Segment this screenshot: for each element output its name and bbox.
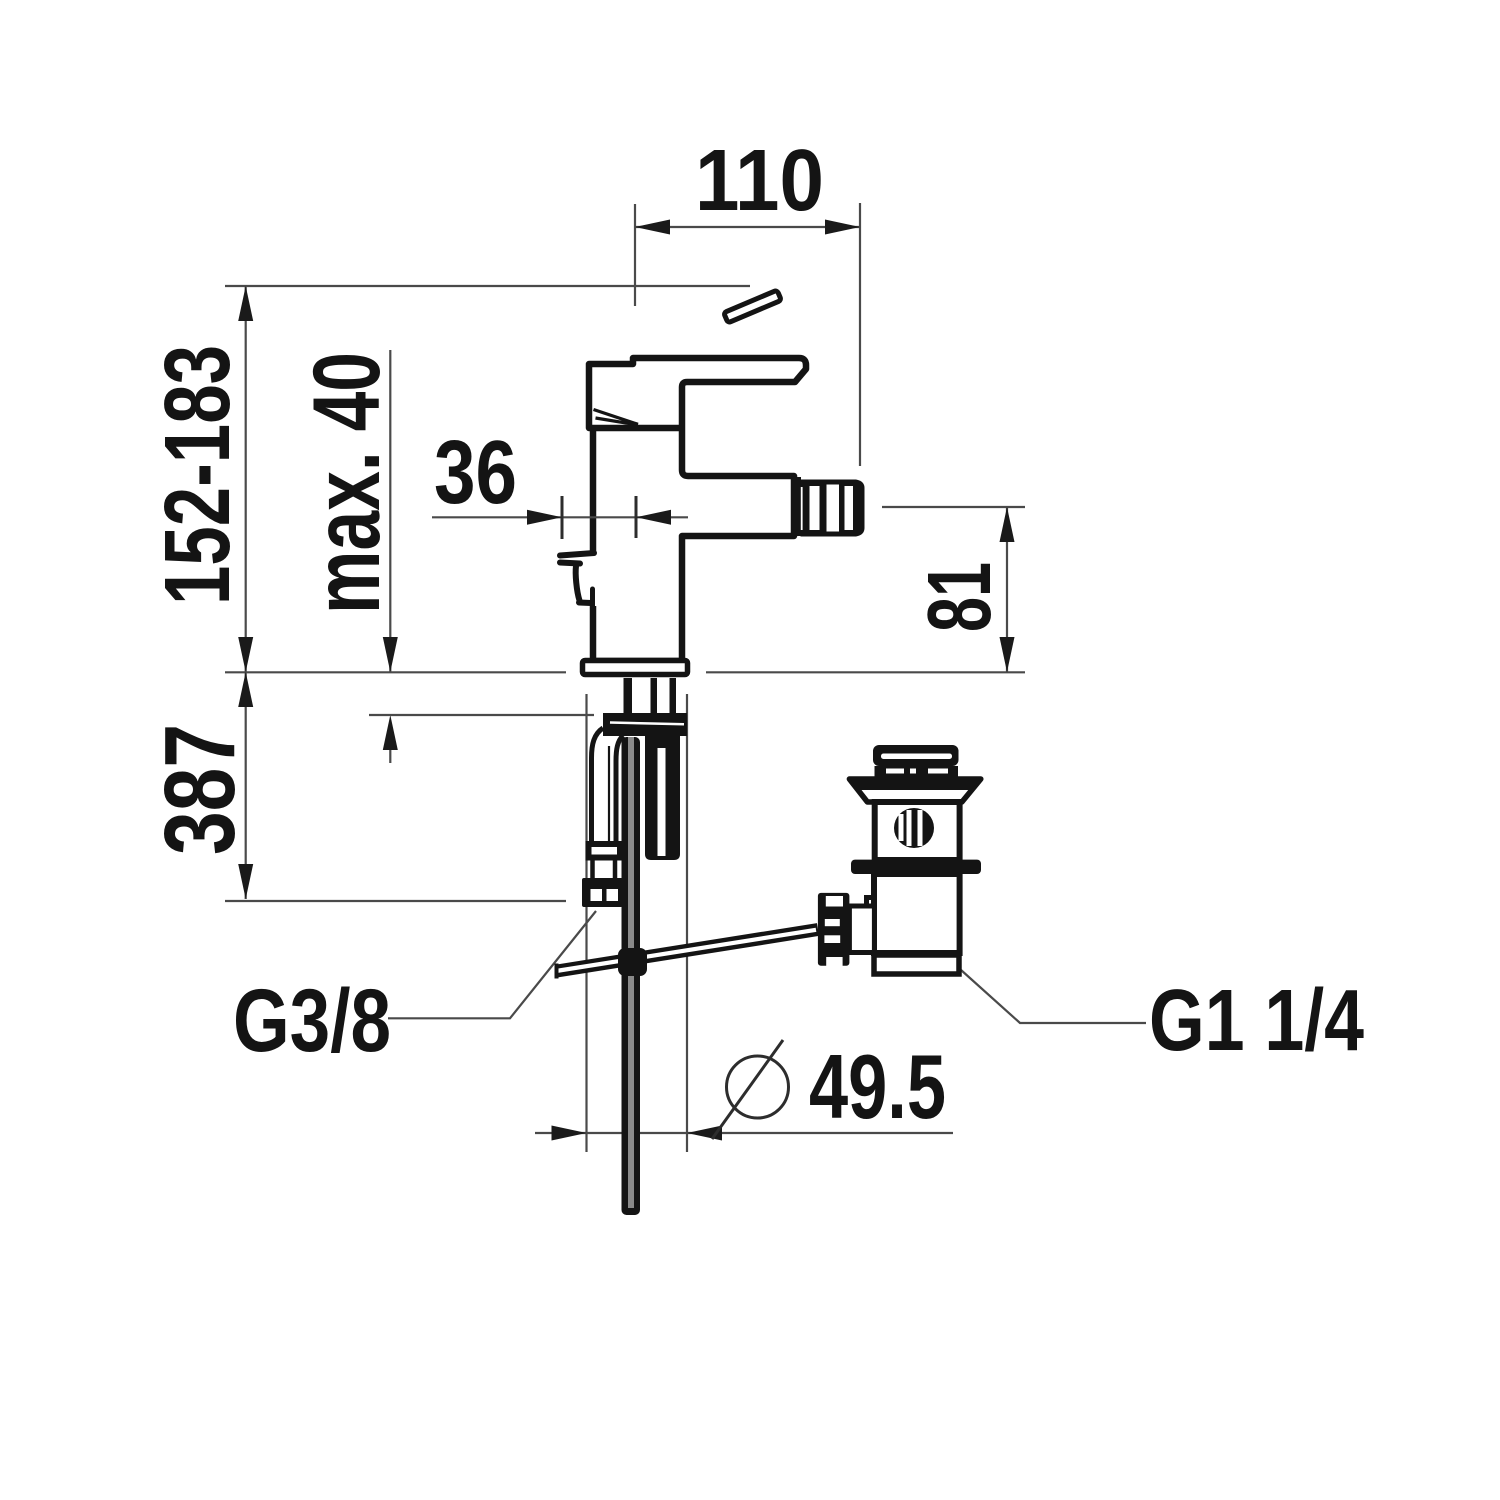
hose lower tube right: [613, 860, 618, 879]
aerator window 3: [845, 486, 854, 530]
pop-up waste cap highlight: [881, 754, 952, 760]
diameter 49.5 left arrow: [552, 1126, 587, 1141]
knurled band dash 3: [928, 769, 948, 774]
G3/8 connector nut slot left: [591, 889, 603, 901]
aerator window 1: [810, 486, 820, 530]
mounting surface line left segment: [225, 671, 566, 673]
aerator collar sliver: [801, 487, 803, 530]
faucet cartridge block bottom line: [591, 425, 681, 432]
linkage junction dot: [618, 948, 647, 976]
horizontal linkage rod: [557, 930, 818, 972]
svg-text:81: 81: [910, 562, 1010, 632]
diameter 49.5 left extension line: [585, 694, 587, 1152]
knob slot 3: [824, 935, 840, 943]
screw head slot 2: [918, 810, 923, 846]
diameter 49.5 right extension line: [686, 694, 688, 1152]
pop-up waste flange black band: [849, 778, 980, 790]
base flange: [583, 661, 688, 675]
G3/8 connector nut slot right: [607, 889, 619, 901]
dimension 152-183 top arrow: [238, 286, 253, 321]
dimension max.40 up arrow below surface: [383, 715, 398, 750]
threaded tailpiece: [645, 736, 680, 860]
dimension 387 top arrow: [238, 672, 253, 707]
aerator body: [801, 480, 865, 537]
pop-up lever hook on faucet body: [589, 554, 597, 606]
knob slot 1: [826, 896, 843, 907]
knurled band dash 2: [910, 769, 916, 774]
G3/8 connector nut: [582, 878, 623, 907]
diameter 49.5 dimension line: [535, 1132, 953, 1134]
dimension 36 right arrow: [636, 510, 671, 525]
pop-up waste lower body: [874, 874, 960, 953]
dimension 110 right extension line: [859, 203, 861, 466]
dimension 110 left arrow: [635, 220, 670, 235]
flexible supply hose outer edge: [592, 728, 604, 842]
mounting nut: [603, 713, 687, 736]
svg-text:152-183: 152-183: [145, 345, 249, 605]
adjusting knob: [818, 893, 850, 966]
pop-up waste gasket band: [851, 860, 981, 874]
faucet body outline: [589, 358, 806, 661]
dimension max.40 vertical line: [389, 350, 391, 672]
mounting surface line right segment: [706, 671, 1025, 673]
pop-up waste screw head: [894, 808, 934, 848]
mounting nut highlight: [610, 723, 684, 725]
dimension max.40 down arrow: [383, 637, 398, 672]
svg-text:G3/8: G3/8: [233, 970, 391, 1070]
pop-up rod: [622, 737, 641, 1215]
threaded shank bar 1: [624, 678, 633, 713]
svg-text:max. 40: max. 40: [294, 352, 400, 614]
diameter 49.5 right arrow: [687, 1126, 722, 1141]
dimension 110 right arrow: [825, 220, 860, 235]
dimension 152-183 line: [245, 286, 247, 672]
threaded tailpiece highlight stripe: [658, 748, 666, 856]
svg-text:110: 110: [695, 132, 824, 229]
svg-text:G1 1/4: G1 1/4: [1149, 972, 1364, 1069]
dimension 81 bottom arrow: [1000, 637, 1015, 672]
hose lower tube left: [590, 860, 595, 879]
pop-up waste upper body: [875, 802, 960, 860]
hose collar ring: [589, 844, 621, 858]
dimension 81 line: [1006, 507, 1008, 672]
flexible supply hose inner edge: [616, 736, 623, 843]
dimension 36 left arrow: [527, 510, 562, 525]
dimension 81 top extension line: [882, 506, 1025, 508]
handle tip position indicator parallelogram: [724, 290, 782, 323]
dimension 81 top arrow: [1000, 507, 1015, 542]
threaded shank bar 3: [670, 678, 677, 713]
knob slot 2: [825, 919, 840, 926]
dimension 110 top reference line: [225, 285, 750, 287]
faucet lever gap wedge: [594, 410, 639, 426]
dimension 387 bottom extension line: [225, 900, 566, 902]
dimension 387 line: [245, 672, 247, 899]
linkage stem to knob: [849, 906, 874, 953]
dimension 36 line: [432, 516, 688, 518]
G3/8 leader line: [388, 911, 596, 1018]
spout joint face: [793, 477, 801, 536]
knob slot 4: [826, 957, 842, 966]
threaded shank bar 2: [651, 678, 658, 713]
svg-text:387: 387: [144, 724, 256, 855]
dimension 152-183 bottom arrow: [238, 637, 253, 672]
knurled band dash 1: [886, 769, 904, 774]
aerator window 2: [827, 485, 840, 532]
pop-up waste knurled band: [875, 766, 959, 781]
waste tailpipe: [874, 955, 959, 974]
dimension 387 bottom arrow: [238, 864, 253, 899]
dimension 110 left extension line: [634, 204, 636, 306]
pop-up waste cap: [873, 745, 959, 766]
svg-text:36: 36: [434, 423, 517, 523]
linkage rod left end cap: [555, 964, 559, 979]
G1 1/4 leader line: [961, 970, 1146, 1023]
dimension 36 right tick: [635, 496, 638, 538]
diameter symbol: [727, 1056, 789, 1118]
screw head slot 1: [899, 814, 904, 841]
flexible supply hose middle line: [608, 746, 610, 842]
pop-up waste flange: [849, 779, 980, 802]
dimension 36 left tick: [561, 496, 564, 539]
svg-text:49.5: 49.5: [809, 1037, 946, 1138]
dimension max.40 lower extension line: [369, 714, 594, 716]
dimension 110 line: [635, 226, 860, 228]
